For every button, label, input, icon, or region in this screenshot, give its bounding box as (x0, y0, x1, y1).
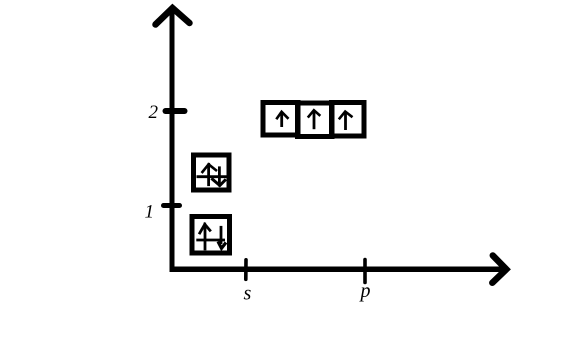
svg-text:2: 2 (149, 102, 159, 123)
svg-text:s: s (244, 283, 252, 305)
svg-text:p: p (359, 280, 371, 302)
svg-text:1: 1 (145, 201, 155, 222)
